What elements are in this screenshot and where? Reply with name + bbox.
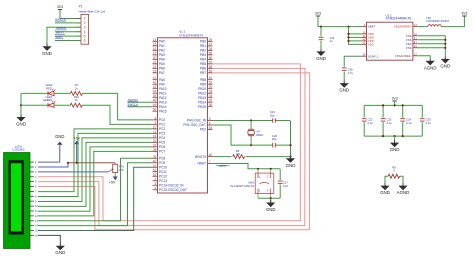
svg-text:10K: 10K	[119, 168, 124, 172]
svg-text:11: 11	[35, 210, 38, 213]
svg-text:40: 40	[153, 159, 157, 163]
wire C25 bottom lead	[421, 122, 423, 136]
wire 3V3 to cap rail	[394, 101, 396, 105]
wire LCD D1 to U1 PC3	[38, 133, 153, 196]
svg-text:PB14: PB14	[198, 100, 206, 104]
svg-text:52: 52	[153, 168, 157, 172]
wire C21 bottom to GND	[320, 41, 322, 49]
svg-text:GND: GND	[266, 207, 276, 212]
svg-text:26: 26	[209, 38, 213, 42]
wire +5V rail to RP1	[68, 162, 115, 164]
svg-text:6: 6	[84, 39, 86, 43]
wire NRST to SW1/C27	[213, 164, 281, 169]
svg-text:RED: RED	[46, 86, 52, 90]
wire VCAP_1 to C28	[344, 56, 361, 67]
wire LCD D0 to U1 PC2	[38, 129, 153, 192]
svg-text:GND: GND	[42, 51, 52, 56]
svg-text:GND: GND	[380, 190, 390, 195]
svg-text:13: 13	[35, 220, 38, 223]
svg-text:PA11: PA11	[159, 91, 167, 95]
potentiometer RP1 10K	[108, 163, 118, 177]
junction rail bottom C23	[382, 135, 384, 137]
svg-text:PC6: PC6	[159, 145, 165, 149]
svg-text:PC15-OSC32_OUT: PC15-OSC32_OUT	[159, 188, 187, 192]
svg-text:56: 56	[209, 56, 213, 60]
wire rail to LED2 cathode	[21, 92, 48, 94]
wire C24 top lead	[402, 105, 404, 117]
svg-text:27: 27	[209, 42, 213, 46]
wire LCD D3 to U1 PC5	[38, 142, 153, 206]
wire NRST to C27 top	[279, 169, 281, 180]
wire SW1 rail to GND	[270, 198, 272, 202]
power flag 3V3 (debug header)	[58, 9, 62, 11]
svg-text:3V3: 3V3	[57, 5, 63, 9]
junction rail bottom C24	[402, 135, 404, 137]
junction LED rail / LED3	[20, 104, 22, 106]
svg-text:VDDA/VREF+: VDDA/VREF+	[394, 25, 412, 29]
svg-text:15: 15	[35, 230, 38, 233]
svg-text:8MHz: 8MHz	[256, 133, 264, 137]
LED LED3 GREEN	[48, 101, 55, 108]
svg-text:GREEN: GREEN	[43, 98, 53, 102]
svg-text:PC2: PC2	[159, 127, 165, 131]
svg-text:PC12: PC12	[159, 175, 167, 179]
svg-text:29: 29	[209, 85, 213, 89]
svg-text:SWO: SWO	[55, 35, 63, 39]
junction LCD VDD / +5V rail	[67, 162, 69, 164]
svg-text:5: 5	[209, 117, 211, 121]
U1.1 pins PC8-PC15 (39,40,51,52,53,2,3,4)	[153, 155, 188, 192]
svg-text:38: 38	[153, 148, 157, 152]
svg-text:PC9: PC9	[159, 161, 165, 165]
wire SWDIO to PA13	[128, 101, 153, 103]
LCD1 pins 1-16 stubs and numbers	[30, 161, 38, 237]
svg-text:GND: GND	[339, 88, 349, 93]
wire LCD RS to PB5 (wrap)	[38, 64, 300, 221]
wire R8 to AGND	[400, 176, 403, 184]
svg-text:AGND: AGND	[397, 190, 410, 195]
svg-text:8: 8	[155, 116, 157, 120]
svg-text:GND: GND	[316, 56, 326, 61]
svg-text:PA15: PA15	[159, 109, 167, 113]
svg-text:+5V: +5V	[74, 137, 81, 141]
ground AGND (U1.2 VSSA)	[427, 58, 434, 64]
U1.1 pins PH0-OSC_IN(5) PH1-OSC_OUT(6) PD2(54)	[183, 117, 212, 132]
wire C24 bottom lead	[402, 122, 404, 136]
wire LCD K (pin16) to GND	[38, 235, 60, 243]
svg-text:VBAT: VBAT	[368, 25, 375, 29]
svg-text:3V3: 3V3	[461, 12, 467, 16]
svg-text:45: 45	[153, 94, 157, 98]
svg-text:12: 12	[35, 215, 38, 218]
junction +5V flag / rail	[76, 162, 78, 164]
svg-text:4: 4	[84, 30, 86, 34]
wire 3V3 to C21 top	[320, 27, 322, 37]
svg-text:33: 33	[209, 90, 213, 94]
svg-text:STM32F446RET6: STM32F446RET6	[386, 17, 412, 21]
svg-text:3V3: 3V3	[315, 12, 321, 16]
svg-text:3: 3	[84, 26, 86, 30]
wire VDD vertical rail	[349, 27, 362, 45]
svg-text:PA14: PA14	[159, 105, 167, 109]
wire VSSA to AGND	[418, 56, 430, 59]
svg-text:3V3: 3V3	[392, 97, 398, 101]
svg-text:21: 21	[153, 60, 157, 64]
ground GND (crystal / BOOT0)	[287, 156, 294, 162]
svg-text:5: 5	[35, 181, 37, 184]
svg-text:GND: GND	[390, 147, 400, 152]
U1.1 pins BOOT0(60) NRST(7)	[195, 153, 212, 166]
capacitor C22 0.1u	[362, 119, 367, 121]
svg-text:3: 3	[35, 171, 37, 174]
svg-text:PC7: PC7	[159, 150, 165, 154]
svg-text:C27: C27	[283, 181, 288, 185]
svg-text:24: 24	[153, 134, 157, 138]
svg-text:PA1: PA1	[159, 44, 165, 48]
svg-text:PA0: PA0	[159, 40, 165, 44]
svg-text:4: 4	[35, 176, 37, 179]
svg-text:20: 20	[153, 56, 157, 60]
ground GND (LEDs)	[18, 115, 25, 121]
svg-text:16: 16	[35, 235, 38, 238]
junction rail top 3V3	[394, 104, 396, 106]
wire C23 top lead	[382, 105, 384, 117]
U1.1 pins PA8-PA15 (41,42,43,44,45,46,49,50)	[153, 76, 167, 113]
wire rail to LED3 cathode	[21, 104, 48, 106]
wire LCD D4 to U1 PC6	[38, 147, 153, 211]
svg-text:5: 5	[84, 34, 86, 38]
wire R10 to U1 PC1	[82, 105, 152, 124]
wire LCD D5 to U1 PC7	[38, 151, 153, 216]
capacitor C28	[342, 68, 347, 70]
svg-text:PB0: PB0	[200, 40, 206, 44]
svg-text:PC5: PC5	[159, 141, 165, 145]
wire P1 pin 3 to GND	[47, 27, 81, 47]
op-amp U1.1 STM32F446RET6 body	[158, 38, 208, 193]
U1.2 left pins VBAT(1) VDD(19,32,48,64) VCAP_1(30)	[362, 23, 380, 58]
capacitor C20 (series)	[273, 143, 276, 148]
svg-text:PB3: PB3	[200, 53, 206, 57]
wire NRST to P1 pin 5	[55, 35, 81, 37]
ground GND (LCD VSS, arrow up)	[57, 142, 63, 145]
svg-text:20p: 20p	[270, 113, 275, 117]
svg-text:FCM1608KF-601T03: FCM1608KF-601T03	[426, 20, 449, 23]
svg-text:7: 7	[209, 160, 211, 164]
op-amp U1.2 STM32F446RET6 power body	[367, 22, 413, 60]
svg-text:PB15: PB15	[198, 105, 206, 109]
svg-text:60: 60	[209, 153, 213, 157]
junction BOOT0 gnd node	[289, 156, 291, 158]
svg-text:PC14-OSC32_IN: PC14-OSC32_IN	[159, 184, 184, 188]
svg-text:41: 41	[153, 76, 157, 80]
junction SW1 bottom / GND	[270, 197, 272, 199]
svg-text:VCAP_1: VCAP_1	[368, 54, 379, 58]
VDD rail branches	[347, 33, 361, 42]
svg-text:1: 1	[84, 17, 86, 21]
wire 3V3 to P1 pin 1	[60, 10, 81, 19]
svg-text:PB8: PB8	[200, 78, 206, 82]
svg-text:53: 53	[153, 173, 157, 177]
svg-text:PC11: PC11	[159, 170, 167, 174]
wire C25 top lead	[421, 105, 423, 117]
junction crystal top	[250, 119, 252, 121]
svg-text:PB12: PB12	[198, 91, 206, 95]
svg-text:61: 61	[209, 76, 213, 80]
wire PH0-OSC_IN to C19	[213, 120, 291, 122]
svg-text:PA4: PA4	[159, 58, 165, 62]
svg-text:55: 55	[209, 51, 213, 55]
svg-text:9: 9	[155, 121, 157, 125]
svg-text:GND: GND	[55, 250, 65, 255]
svg-text:GND: GND	[286, 163, 296, 168]
svg-text:4.7u: 4.7u	[348, 71, 354, 75]
svg-text:BOOT0: BOOT0	[195, 155, 206, 159]
junction VDD rail / VBAT wire	[347, 26, 349, 28]
wire C28 bottom to GND	[343, 71, 345, 81]
svg-text:PD2: PD2	[200, 128, 206, 132]
ground GND (LCD backlight)	[57, 243, 64, 249]
capacitor C19 (series)	[273, 118, 276, 123]
power flag +5V (RP1)	[113, 177, 118, 181]
svg-text:50: 50	[153, 108, 157, 112]
svg-text:PA5: PA5	[159, 62, 165, 66]
ground AGND (R8)	[400, 183, 407, 189]
wire LCD D2 to U1 PC4	[38, 138, 153, 202]
svg-text:39: 39	[153, 155, 157, 159]
svg-text:43: 43	[153, 85, 157, 89]
svg-text:14: 14	[35, 225, 38, 228]
svg-text:0.1u: 0.1u	[426, 121, 432, 125]
junction crystal bottom	[250, 144, 252, 146]
wire LCD VSS to GND	[38, 161, 60, 163]
svg-text:PB7: PB7	[200, 71, 206, 75]
junction NRST / SW1 pin2	[270, 168, 272, 170]
svg-text:0.1u: 0.1u	[283, 184, 289, 188]
svg-text:8: 8	[35, 195, 37, 198]
wire LED3 anode to R10	[54, 104, 70, 106]
inductor L20 FCM1608KF-601T03	[428, 25, 442, 27]
svg-text:15: 15	[153, 42, 157, 46]
LCD module LCD1 LCD1602 body	[4, 153, 31, 249]
svg-text:14: 14	[153, 38, 157, 42]
power 3V3 (U1.2 VBAT)	[316, 15, 320, 17]
svg-text:C28: C28	[348, 67, 353, 71]
svg-text:+5V: +5V	[109, 180, 116, 184]
svg-text:PA8: PA8	[159, 78, 165, 82]
svg-text:PH1-OSC_OUT: PH1-OSC_OUT	[183, 123, 206, 127]
svg-text:PA12: PA12	[159, 96, 167, 100]
wire LCD D6 to U1 PC8	[38, 158, 153, 220]
svg-text:PC8: PC8	[159, 157, 165, 161]
svg-text:10: 10	[153, 125, 157, 129]
wire LCD VDD to +5V rail	[38, 163, 68, 167]
connector P1 Header-Male-2.54_1x6	[77, 14, 89, 44]
svg-text:10k: 10k	[236, 152, 241, 156]
wire R7 to U1 PC0	[82, 93, 152, 120]
svg-text:0.1u: 0.1u	[387, 121, 393, 125]
svg-text:PB10: PB10	[198, 87, 206, 91]
U1.1 pins PB0-PB7 (26,27,28,55,56,57,58,59)	[200, 38, 213, 75]
ground GND (U1.2 VSS)	[442, 56, 449, 62]
junction C21 / 3V3	[320, 26, 322, 28]
wire SW1 bottom rail	[258, 197, 280, 199]
VSS wires to ground rail	[418, 36, 447, 57]
wire 3V3 to VBAT	[318, 16, 362, 27]
svg-text:20p: 20p	[272, 137, 277, 141]
resistor R7	[70, 91, 82, 95]
power flag +5V (LCD)	[74, 141, 79, 145]
capacitor C21	[319, 37, 324, 39]
svg-text:6: 6	[35, 186, 37, 189]
svg-text:36: 36	[209, 103, 213, 107]
svg-text:59: 59	[209, 69, 213, 73]
svg-text:NRST: NRST	[197, 162, 206, 166]
svg-text:42: 42	[153, 81, 157, 85]
svg-text:PB13: PB13	[198, 96, 206, 100]
wire LCD RW to PB6 (wrap)	[38, 68, 305, 225]
capacitor C24 0.1u	[400, 119, 405, 121]
svg-text:VSS: VSS	[406, 46, 412, 50]
resistor R8	[388, 174, 400, 178]
svg-text:NRST: NRST	[219, 164, 227, 168]
capacitor C27	[278, 181, 283, 183]
wire C27 bottom	[279, 184, 281, 198]
svg-text:PB5: PB5	[200, 62, 206, 66]
svg-text:SW1: SW1	[248, 180, 254, 184]
svg-text:PB2: PB2	[200, 49, 206, 53]
junction rail bottom GND	[394, 135, 396, 137]
svg-text:34: 34	[209, 94, 213, 98]
wire LCD D7 to U1 PC9	[38, 163, 153, 226]
svg-text:46: 46	[153, 99, 157, 103]
wire C23 bottom lead	[382, 122, 384, 136]
svg-text:62: 62	[209, 81, 213, 85]
svg-text:GND: GND	[55, 134, 64, 139]
junction rail top C23	[382, 104, 384, 106]
wire R8 to GND	[385, 176, 388, 184]
svg-text:AGND: AGND	[424, 65, 437, 70]
wire cap rail to GND	[394, 136, 396, 141]
wire R9 to GND node	[246, 156, 291, 158]
wire LED2 anode to R7	[54, 92, 70, 94]
svg-text:VDD: VDD	[368, 43, 374, 47]
svg-text:16: 16	[153, 47, 157, 51]
svg-text:2: 2	[84, 21, 86, 25]
svg-text:57: 57	[209, 60, 213, 64]
ground GND (SW1)	[267, 200, 274, 206]
wire SWCLK to P1 pin 2	[55, 22, 81, 24]
svg-text:51: 51	[153, 164, 157, 168]
wire SWO to P1 pin 6	[55, 40, 81, 42]
svg-text:SWCLK: SWCLK	[55, 17, 67, 21]
svg-text:PB4: PB4	[200, 58, 206, 62]
wire C22 bottom lead	[363, 122, 365, 136]
ground GND (debug header)	[44, 44, 51, 50]
svg-text:4: 4	[155, 186, 157, 190]
wire LCD V0 to RP1 wiper	[38, 171, 108, 173]
power 3V3 (VDDA)	[462, 15, 466, 17]
resistor R9	[233, 155, 245, 159]
junction rail top C24	[402, 104, 404, 106]
svg-text:PB1: PB1	[200, 44, 206, 48]
svg-text:23: 23	[153, 69, 157, 73]
svg-text:P1: P1	[79, 5, 83, 9]
svg-text:K2-1102SP-C4SC-04: K2-1102SP-C4SC-04	[230, 185, 254, 188]
U1.1 pins PB8-PB15 (61,62,29,33,34,35,36)	[198, 76, 212, 109]
svg-text:PA10: PA10	[159, 87, 167, 91]
wire VDDA to L20	[418, 26, 428, 28]
svg-text:PB6: PB6	[200, 67, 206, 71]
svg-text:54: 54	[209, 126, 213, 130]
capacitor C25 0.1u	[420, 119, 425, 121]
svg-text:1: 1	[35, 161, 37, 164]
svg-text:PC3: PC3	[159, 132, 165, 136]
svg-text:11: 11	[153, 130, 157, 134]
U1.1 pins PA0-PA7 (14,15,16,17,20,21,22,23)	[153, 38, 166, 75]
wire C22 top lead	[363, 105, 365, 117]
svg-text:28: 28	[209, 47, 213, 51]
wire LCD E to PB7 (wrap)	[38, 73, 310, 230]
svg-text:10: 10	[35, 205, 38, 208]
wire L20 to 3V3	[441, 16, 464, 27]
wire LED ground rail	[20, 93, 22, 117]
svg-text:VSSA/VREF-: VSSA/VREF-	[395, 54, 412, 58]
ground GND (R8)	[382, 183, 389, 189]
svg-text:PA7: PA7	[159, 71, 165, 75]
svg-text:PC1: PC1	[159, 123, 165, 127]
svg-text:PC13: PC13	[159, 179, 167, 183]
wire cap rail bottom	[364, 135, 422, 137]
svg-text:PA2: PA2	[159, 49, 165, 53]
svg-text:PC10: PC10	[159, 166, 167, 170]
wire SWCLK to PA14	[128, 106, 153, 108]
svg-text:49: 49	[153, 103, 157, 107]
U1.2 right pins VDDA/VREF+(13) VSS(18,31,47,63) VSSA/VREF-(12)	[394, 23, 418, 58]
ground GND (C21)	[318, 49, 325, 55]
svg-text:GND: GND	[16, 122, 26, 127]
svg-text:1u: 1u	[330, 39, 333, 43]
U1.1 pins PC0-PC7 (8,9,10,11,24,25,37,38)	[153, 116, 166, 153]
svg-text:17: 17	[153, 51, 157, 55]
wire PH1-OSC_OUT to C20	[213, 125, 291, 145]
wire crystal caps to GND node	[290, 121, 292, 158]
svg-text:0.1u: 0.1u	[406, 121, 412, 125]
crystal X4 8MHz	[248, 121, 254, 146]
svg-text:Header-Male-2.54_1x6: Header-Male-2.54_1x6	[79, 9, 106, 13]
svg-text:SWDIO: SWDIO	[56, 26, 67, 30]
svg-text:9: 9	[35, 200, 37, 203]
svg-text:STM32F446RET6: STM32F446RET6	[179, 33, 204, 37]
svg-text:44: 44	[153, 90, 157, 94]
resistor R10	[70, 103, 82, 107]
svg-text:PA9: PA9	[159, 82, 165, 86]
switch SW1 K2-1102SP-C4SC-04	[255, 169, 274, 198]
svg-text:2: 2	[35, 166, 37, 169]
svg-text:0.1u: 0.1u	[368, 121, 374, 125]
svg-text:NRST: NRST	[56, 31, 65, 35]
svg-text:25: 25	[153, 139, 157, 143]
ground GND (C28)	[341, 81, 348, 87]
svg-text:37: 37	[153, 143, 157, 147]
svg-text:35: 35	[209, 99, 213, 103]
junction NRST / SW1 pin1	[257, 168, 259, 170]
svg-text:6: 6	[209, 122, 211, 126]
svg-text:7: 7	[35, 191, 37, 194]
svg-text:PC4: PC4	[159, 136, 165, 140]
wire SWDIO to P1 pin 4	[55, 31, 81, 33]
wire cap rail top	[364, 104, 422, 106]
svg-text:58: 58	[209, 65, 213, 69]
